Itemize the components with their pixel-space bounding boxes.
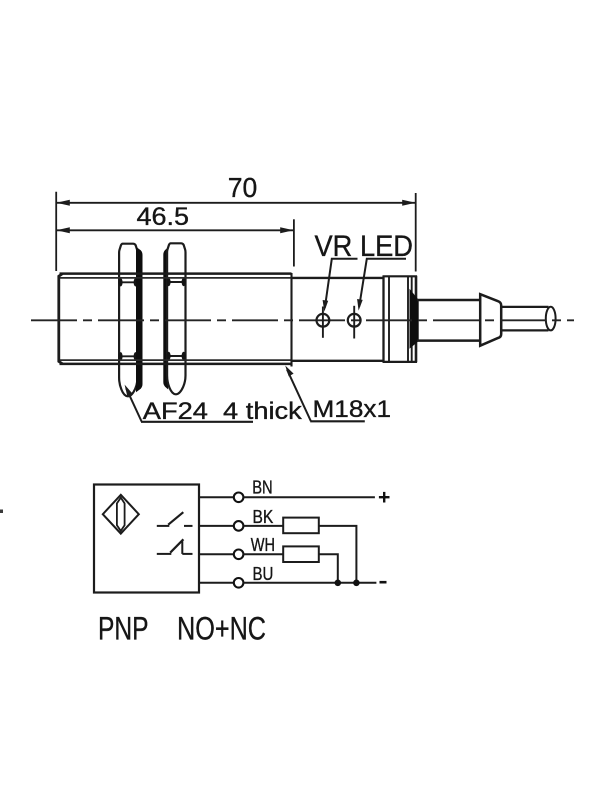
barrel thread root top xyxy=(60,277,292,279)
strain relief cone xyxy=(480,294,501,346)
rear body top xyxy=(292,277,385,279)
rear body bottom xyxy=(292,360,385,362)
junction dot 2 xyxy=(353,580,360,587)
LED circle xyxy=(353,306,355,339)
minus sign xyxy=(380,581,387,584)
svg-text:BN: BN xyxy=(252,478,273,498)
wire BK stub xyxy=(199,525,234,527)
barrel thread root bottom xyxy=(60,359,292,361)
cone fill xyxy=(410,289,419,349)
sensor box xyxy=(94,485,199,593)
hex nut N1 front facet xyxy=(119,244,137,397)
dim ext line right 70 xyxy=(415,193,417,272)
cable gland cylinder xyxy=(417,299,480,302)
terminal WH xyxy=(234,550,244,560)
barrel thread crest bottom xyxy=(60,363,292,366)
plus sign xyxy=(379,496,390,498)
AF24 underline xyxy=(141,421,253,423)
sensor symbol outer diamond xyxy=(103,495,139,534)
wire BU xyxy=(243,582,376,584)
svg-text:70: 70 xyxy=(228,172,257,203)
sensor symbol inner lens xyxy=(117,498,125,531)
svg-text:WH: WH xyxy=(251,535,275,555)
resistor R2 xyxy=(283,546,319,562)
svg-text:NO+NC: NO+NC xyxy=(177,611,266,647)
svg-text:BK: BK xyxy=(253,507,274,527)
centerline xyxy=(31,319,574,321)
AF24 leader xyxy=(126,388,141,421)
svg-text:AF24 4 thick: AF24 4 thick xyxy=(143,398,303,425)
dim ext line 46.5 xyxy=(293,219,295,266)
cable end xyxy=(546,307,556,331)
wire WH xyxy=(243,553,283,555)
hex nut N1 shaded facet xyxy=(136,247,143,392)
terminal BK xyxy=(234,521,244,531)
wire WH stub xyxy=(199,553,234,555)
cable xyxy=(501,306,549,308)
barrel left end edge xyxy=(59,274,63,364)
svg-text:46.5: 46.5 xyxy=(137,203,190,231)
wire BU stub xyxy=(199,582,234,584)
hex nut N2 shaded facet xyxy=(163,247,168,389)
svg-text:VR LED: VR LED xyxy=(315,230,414,263)
hex nut N2 front facet xyxy=(167,243,185,394)
rear cap outline xyxy=(382,276,384,362)
nut N2 facet chords xyxy=(168,281,185,283)
svg-text:PNP: PNP xyxy=(98,611,149,647)
barrel step line xyxy=(290,273,292,367)
wire BK right xyxy=(319,526,357,583)
resistor R1 xyxy=(283,518,319,534)
VR leader xyxy=(325,259,358,308)
nut N1 facet chords xyxy=(120,281,137,283)
svg-text:BU: BU xyxy=(253,564,274,584)
switch NC xyxy=(157,553,172,555)
junction dot 1 xyxy=(335,580,342,587)
speck left edge xyxy=(0,510,3,514)
M18x1 leader xyxy=(287,370,311,422)
dim line 46.5 xyxy=(57,229,294,231)
dim line 70 xyxy=(57,202,415,204)
barrel thread crest top xyxy=(60,272,292,275)
switch NO xyxy=(157,525,170,527)
wire BN stub xyxy=(199,496,234,498)
M18x1 underline xyxy=(310,420,365,422)
wire BK xyxy=(243,525,283,527)
wire BN xyxy=(243,496,375,498)
dim ext line left xyxy=(55,192,57,271)
LED leader xyxy=(359,259,406,307)
wire WH right xyxy=(319,554,338,583)
terminal BN xyxy=(234,493,244,503)
svg-text:M18x1: M18x1 xyxy=(313,396,392,423)
terminal BU xyxy=(234,578,244,588)
VR pot circle xyxy=(322,307,324,338)
